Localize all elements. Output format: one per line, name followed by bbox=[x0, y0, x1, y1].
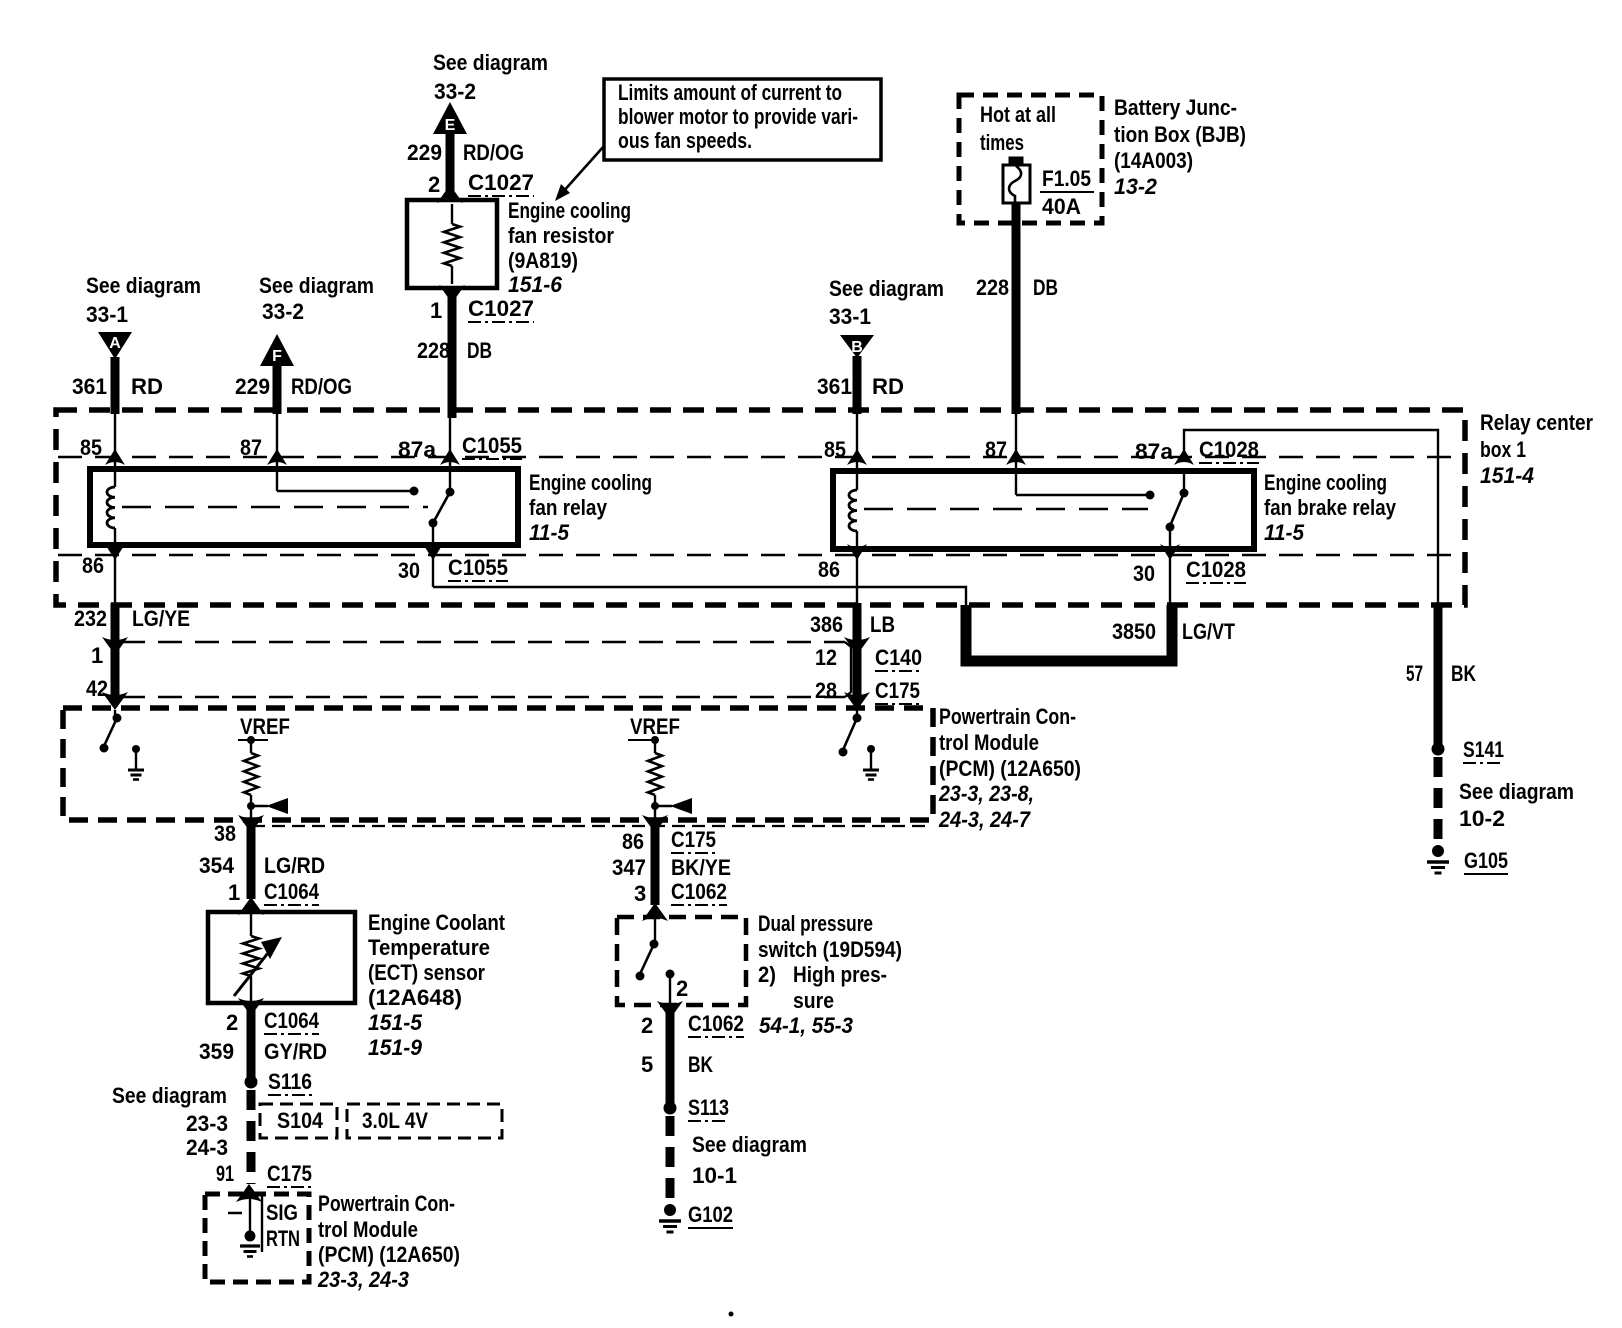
svg-text:See diagram: See diagram bbox=[86, 273, 201, 298]
svg-text:LG/VT: LG/VT bbox=[1182, 619, 1235, 644]
svg-text:23-3: 23-3 bbox=[186, 1111, 228, 1136]
svg-text:229: 229 bbox=[407, 140, 442, 165]
svg-text:85: 85 bbox=[824, 437, 846, 462]
svg-text:C1028: C1028 bbox=[1186, 557, 1246, 582]
svg-text:(PCM) (12A650): (PCM) (12A650) bbox=[939, 756, 1081, 781]
svg-text:B: B bbox=[851, 339, 863, 356]
svg-text:361: 361 bbox=[72, 374, 107, 399]
svg-text:RD: RD bbox=[131, 374, 163, 399]
svg-text:24-3, 24-7: 24-3, 24-7 bbox=[938, 807, 1032, 832]
svg-text:33-2: 33-2 bbox=[262, 299, 304, 324]
svg-text:C1062: C1062 bbox=[688, 1011, 744, 1036]
svg-text:High pres-: High pres- bbox=[793, 962, 887, 987]
svg-text:blower motor to provide vari-: blower motor to provide vari- bbox=[618, 104, 858, 129]
svg-text:(ECT) sensor: (ECT) sensor bbox=[368, 960, 485, 985]
svg-text:See diagram: See diagram bbox=[433, 50, 548, 75]
svg-text:Battery Junc-: Battery Junc- bbox=[1114, 95, 1237, 120]
svg-text:(PCM) (12A650): (PCM) (12A650) bbox=[318, 1242, 460, 1267]
svg-text:5: 5 bbox=[641, 1052, 653, 1077]
svg-text:Hot at all: Hot at all bbox=[980, 102, 1056, 127]
svg-text:C175: C175 bbox=[267, 1161, 312, 1186]
svg-text:1: 1 bbox=[228, 880, 240, 905]
svg-text:fan resistor: fan resistor bbox=[508, 223, 614, 248]
svg-text:228: 228 bbox=[417, 338, 450, 363]
svg-text:38: 38 bbox=[214, 821, 236, 846]
svg-text:354: 354 bbox=[199, 853, 235, 878]
svg-text:42: 42 bbox=[86, 676, 108, 701]
svg-text:C175: C175 bbox=[875, 678, 920, 703]
svg-text:Relay center: Relay center bbox=[1480, 410, 1593, 435]
svg-text:3.0L 4V: 3.0L 4V bbox=[362, 1108, 428, 1133]
svg-text:Dual pressure: Dual pressure bbox=[758, 911, 873, 936]
svg-text:DB: DB bbox=[467, 338, 492, 363]
svg-text:151-5: 151-5 bbox=[368, 1010, 423, 1035]
svg-text:Powertrain Con-: Powertrain Con- bbox=[318, 1191, 455, 1216]
svg-text:F1.05: F1.05 bbox=[1042, 166, 1091, 191]
svg-text:LG/YE: LG/YE bbox=[132, 606, 190, 631]
svg-text:229: 229 bbox=[235, 374, 270, 399]
svg-text:fan relay: fan relay bbox=[529, 495, 608, 520]
svg-text:28: 28 bbox=[815, 678, 837, 703]
svg-text:Engine Coolant: Engine Coolant bbox=[368, 910, 506, 935]
svg-text:33-1: 33-1 bbox=[829, 304, 871, 329]
svg-text:DB: DB bbox=[1033, 275, 1058, 300]
svg-text:sure: sure bbox=[793, 988, 834, 1013]
svg-text:Engine cooling: Engine cooling bbox=[1264, 470, 1387, 495]
svg-text:G105: G105 bbox=[1464, 848, 1508, 873]
svg-text:C1027: C1027 bbox=[468, 170, 534, 195]
svg-text:RD/OG: RD/OG bbox=[291, 374, 352, 399]
svg-text:C1055: C1055 bbox=[448, 555, 508, 580]
svg-text:A: A bbox=[109, 335, 121, 352]
svg-text:3850: 3850 bbox=[1112, 619, 1156, 644]
svg-text:RTN: RTN bbox=[266, 1226, 300, 1251]
svg-text:fan brake relay: fan brake relay bbox=[1264, 495, 1397, 520]
svg-text:trol Module: trol Module bbox=[318, 1217, 418, 1242]
svg-text:347: 347 bbox=[612, 855, 646, 880]
svg-text:See diagram: See diagram bbox=[1459, 779, 1574, 804]
svg-text:LG/RD: LG/RD bbox=[264, 853, 325, 878]
svg-text:(12A648): (12A648) bbox=[368, 985, 462, 1010]
svg-text:C140: C140 bbox=[875, 645, 922, 670]
svg-text:(14A003): (14A003) bbox=[1114, 148, 1193, 173]
svg-text:13-2: 13-2 bbox=[1114, 174, 1158, 199]
svg-text:359: 359 bbox=[199, 1039, 234, 1064]
svg-text:57: 57 bbox=[1406, 661, 1423, 686]
svg-text:S113: S113 bbox=[688, 1095, 729, 1120]
svg-text:BK/YE: BK/YE bbox=[671, 855, 731, 880]
svg-text:2: 2 bbox=[641, 1013, 653, 1038]
svg-text:C1055: C1055 bbox=[462, 433, 522, 458]
svg-text:30: 30 bbox=[1133, 561, 1155, 586]
svg-text:C1062: C1062 bbox=[671, 879, 727, 904]
svg-text:S116: S116 bbox=[268, 1069, 312, 1094]
svg-text:11-5: 11-5 bbox=[529, 520, 570, 545]
svg-text:VREF: VREF bbox=[240, 714, 290, 739]
svg-text:2): 2) bbox=[758, 962, 776, 987]
svg-text:Temperature: Temperature bbox=[368, 935, 490, 960]
svg-text:3: 3 bbox=[634, 881, 646, 906]
svg-text:C1028: C1028 bbox=[1199, 437, 1259, 462]
svg-text:box 1: box 1 bbox=[1480, 437, 1526, 462]
svg-text:Limits amount of current to: Limits amount of current to bbox=[618, 80, 842, 105]
svg-text:BK: BK bbox=[688, 1052, 713, 1077]
svg-text:S104: S104 bbox=[277, 1108, 324, 1133]
svg-text:tion Box (BJB): tion Box (BJB) bbox=[1114, 122, 1246, 147]
svg-text:See diagram: See diagram bbox=[112, 1083, 227, 1108]
svg-text:ous fan speeds.: ous fan speeds. bbox=[618, 128, 752, 153]
svg-text:GY/RD: GY/RD bbox=[264, 1039, 327, 1064]
svg-text:23-3, 23-8,: 23-3, 23-8, bbox=[938, 781, 1034, 806]
svg-text:86: 86 bbox=[82, 553, 104, 578]
svg-text:trol Module: trol Module bbox=[939, 730, 1039, 755]
svg-text:40A: 40A bbox=[1042, 194, 1081, 219]
svg-text:87a: 87a bbox=[398, 437, 437, 462]
svg-text:C175: C175 bbox=[671, 827, 716, 852]
svg-text:87a: 87a bbox=[1135, 439, 1174, 464]
svg-text:1: 1 bbox=[91, 643, 103, 668]
svg-text:151-9: 151-9 bbox=[368, 1035, 423, 1060]
svg-text:151-4: 151-4 bbox=[1480, 463, 1534, 488]
svg-text:(9A819): (9A819) bbox=[508, 248, 578, 273]
svg-text:RD: RD bbox=[872, 374, 904, 399]
svg-text:10-2: 10-2 bbox=[1459, 806, 1505, 831]
svg-text:54-1, 55-3: 54-1, 55-3 bbox=[759, 1013, 853, 1038]
svg-text:SIG: SIG bbox=[266, 1200, 298, 1225]
svg-text:C1064: C1064 bbox=[264, 1008, 320, 1033]
svg-text:386: 386 bbox=[810, 612, 843, 637]
svg-text:85: 85 bbox=[80, 435, 102, 460]
svg-text:RD/OG: RD/OG bbox=[463, 140, 524, 165]
svg-text:33-1: 33-1 bbox=[86, 302, 128, 327]
svg-text:Engine cooling: Engine cooling bbox=[508, 198, 631, 223]
svg-text:times: times bbox=[980, 130, 1024, 155]
svg-text:2: 2 bbox=[676, 976, 688, 1001]
svg-text:G102: G102 bbox=[688, 1202, 733, 1227]
svg-text:2: 2 bbox=[226, 1010, 238, 1035]
svg-text:switch (19D594): switch (19D594) bbox=[758, 937, 902, 962]
svg-text:91: 91 bbox=[216, 1161, 234, 1186]
svg-text:See diagram: See diagram bbox=[259, 273, 374, 298]
svg-text:87: 87 bbox=[985, 437, 1007, 462]
svg-text:24-3: 24-3 bbox=[186, 1135, 228, 1160]
svg-text:S141: S141 bbox=[1463, 737, 1504, 762]
svg-text:87: 87 bbox=[240, 435, 262, 460]
svg-text:See diagram: See diagram bbox=[829, 276, 944, 301]
svg-text:11-5: 11-5 bbox=[1264, 520, 1305, 545]
svg-text:1: 1 bbox=[430, 298, 442, 323]
svg-text:10-1: 10-1 bbox=[692, 1163, 737, 1188]
svg-text:361: 361 bbox=[817, 374, 852, 399]
svg-text:86: 86 bbox=[818, 557, 840, 582]
svg-text:151-6: 151-6 bbox=[508, 272, 563, 297]
svg-text:LB: LB bbox=[870, 612, 895, 637]
svg-text:C1027: C1027 bbox=[468, 296, 534, 321]
svg-text:2: 2 bbox=[428, 172, 440, 197]
svg-text:Powertrain Con-: Powertrain Con- bbox=[939, 704, 1076, 729]
svg-text:BK: BK bbox=[1451, 661, 1476, 686]
svg-text:86: 86 bbox=[622, 829, 644, 854]
svg-text:12: 12 bbox=[815, 645, 837, 670]
svg-text:C1064: C1064 bbox=[264, 879, 320, 904]
svg-text:33-2: 33-2 bbox=[434, 79, 476, 104]
svg-text:228: 228 bbox=[976, 275, 1009, 300]
svg-text:30: 30 bbox=[398, 558, 420, 583]
svg-text:See diagram: See diagram bbox=[692, 1132, 807, 1157]
svg-text:Engine cooling: Engine cooling bbox=[529, 470, 652, 495]
svg-text:VREF: VREF bbox=[630, 714, 680, 739]
svg-text:23-3, 24-3: 23-3, 24-3 bbox=[317, 1267, 409, 1292]
svg-text:232: 232 bbox=[74, 606, 107, 631]
